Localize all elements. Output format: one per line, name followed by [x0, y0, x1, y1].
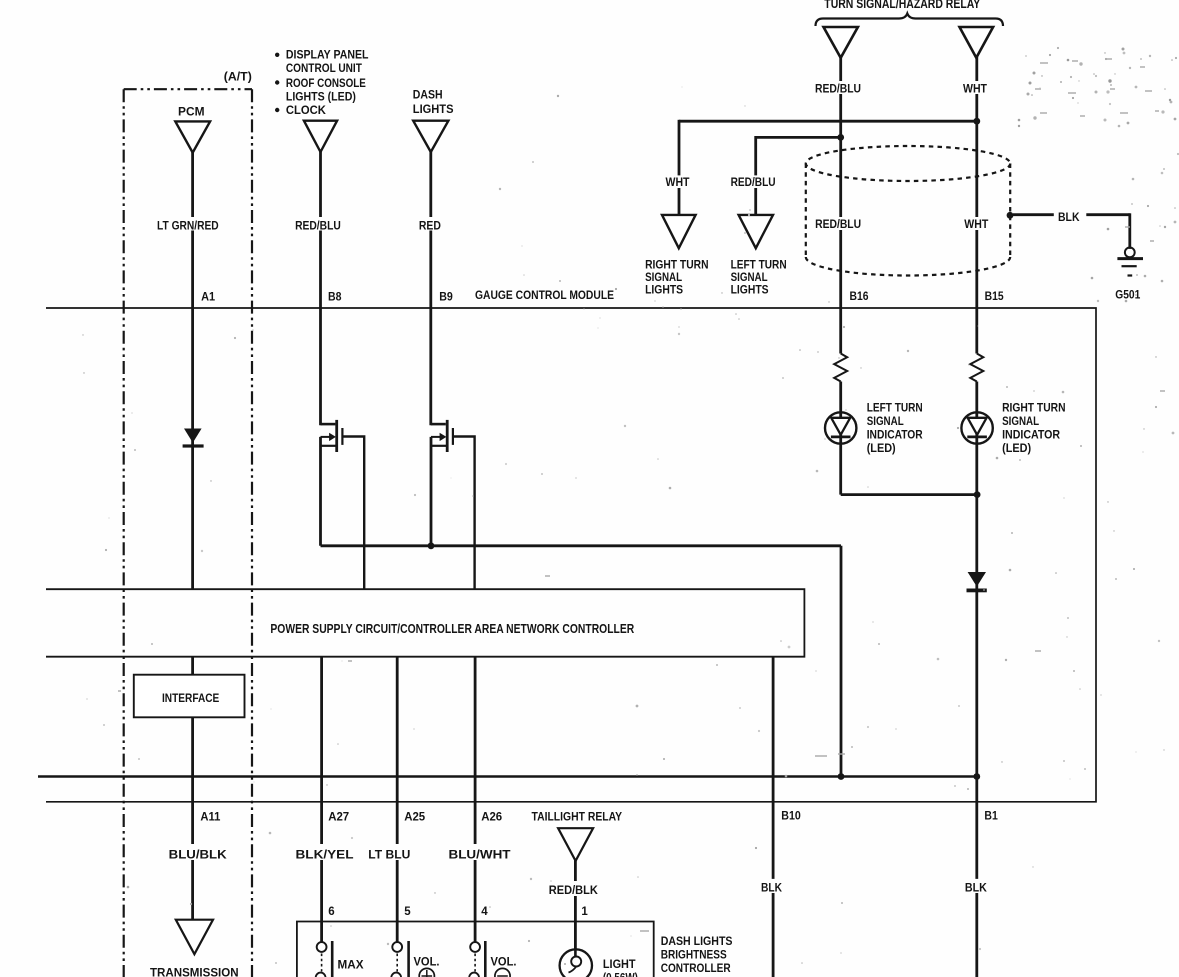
- svg-text:BLU/WHT: BLU/WHT: [449, 848, 512, 862]
- svg-text:LIGHT: LIGHT: [603, 957, 636, 971]
- svg-text:LT BLU: LT BLU: [368, 848, 410, 862]
- svg-text:INDICATOR: INDICATOR: [867, 428, 923, 442]
- svg-text:SIGNAL: SIGNAL: [867, 414, 904, 428]
- svg-text:DISPLAY PANEL: DISPLAY PANEL: [286, 48, 369, 62]
- svg-text:ROOF CONSOLE: ROOF CONSOLE: [286, 76, 366, 90]
- svg-text:WHT: WHT: [963, 82, 988, 96]
- svg-text:BLU/BLK: BLU/BLK: [169, 848, 227, 862]
- svg-text:A25: A25: [404, 812, 426, 824]
- svg-text:LIGHTS (LED): LIGHTS (LED): [286, 89, 356, 103]
- svg-text:CLOCK: CLOCK: [286, 103, 326, 117]
- svg-text:CONTROL UNIT: CONTROL UNIT: [286, 61, 363, 75]
- svg-text:MAX: MAX: [338, 958, 364, 972]
- svg-text:WHT: WHT: [666, 175, 691, 189]
- svg-text:A11: A11: [200, 812, 221, 824]
- svg-text:TURN SIGNAL/HAZARD RELAY: TURN SIGNAL/HAZARD RELAY: [824, 0, 981, 11]
- svg-text:LIGHTS: LIGHTS: [731, 283, 769, 297]
- svg-text:B16: B16: [850, 291, 869, 303]
- svg-text:WHT: WHT: [964, 217, 989, 231]
- svg-text:BLK/YEL: BLK/YEL: [296, 848, 354, 862]
- svg-text:B1: B1: [984, 811, 998, 823]
- svg-text:LIGHTS: LIGHTS: [645, 283, 683, 297]
- svg-text:LEFT TURN: LEFT TURN: [867, 401, 923, 415]
- svg-text:RED: RED: [419, 218, 441, 232]
- svg-text:1: 1: [581, 906, 588, 918]
- svg-text:A26: A26: [481, 812, 502, 824]
- svg-text:INDICATOR: INDICATOR: [1002, 428, 1060, 442]
- svg-text:PCM: PCM: [178, 104, 205, 118]
- svg-text:BLK: BLK: [1058, 210, 1080, 224]
- svg-text:RED/BLU: RED/BLU: [815, 82, 861, 96]
- svg-text:B9: B9: [439, 292, 453, 304]
- svg-text:LIGHTS: LIGHTS: [413, 102, 454, 116]
- svg-text:BLK: BLK: [965, 881, 987, 895]
- svg-text:RED/BLU: RED/BLU: [815, 217, 861, 231]
- svg-text:B10: B10: [781, 811, 801, 823]
- svg-text:5: 5: [404, 906, 411, 918]
- svg-text:G501: G501: [1115, 287, 1140, 301]
- svg-text:TAILLIGHT RELAY: TAILLIGHT RELAY: [532, 810, 623, 824]
- svg-text:RED/BLU: RED/BLU: [731, 175, 776, 189]
- svg-text:6: 6: [328, 906, 334, 918]
- svg-text:BLK: BLK: [761, 881, 782, 895]
- svg-text:GAUGE CONTROL MODULE: GAUGE CONTROL MODULE: [475, 288, 614, 302]
- svg-text:VOL.: VOL.: [414, 955, 440, 969]
- svg-text:RED/BLK: RED/BLK: [549, 883, 598, 897]
- svg-text:DASH LIGHTS: DASH LIGHTS: [661, 934, 733, 948]
- svg-text:TRANSMISSION: TRANSMISSION: [150, 966, 239, 977]
- svg-text:SIGNAL: SIGNAL: [1002, 414, 1039, 428]
- svg-text:B8: B8: [328, 292, 342, 304]
- svg-text:CONTROLLER: CONTROLLER: [661, 961, 731, 975]
- svg-text:BRIGHTNESS: BRIGHTNESS: [661, 948, 727, 962]
- svg-text:A1: A1: [201, 292, 216, 304]
- svg-text:(0.56W): (0.56W): [603, 971, 638, 977]
- svg-text:RIGHT TURN: RIGHT TURN: [1002, 401, 1065, 415]
- svg-text:(A/T): (A/T): [224, 70, 252, 84]
- svg-text:POWER SUPPLY CIRCUIT/CONTROLLE: POWER SUPPLY CIRCUIT/CONTROLLER AREA NET…: [270, 622, 634, 636]
- svg-text:INTERFACE: INTERFACE: [162, 691, 219, 705]
- svg-text:B15: B15: [985, 291, 1005, 303]
- svg-text:(LED): (LED): [1002, 441, 1031, 455]
- svg-text:DASH: DASH: [413, 87, 443, 101]
- svg-text:RED/BLU: RED/BLU: [295, 218, 341, 232]
- svg-text:LT GRN/RED: LT GRN/RED: [157, 218, 219, 232]
- svg-text:VOL.: VOL.: [491, 955, 517, 969]
- svg-text:A27: A27: [328, 812, 349, 824]
- svg-text:(LED): (LED): [867, 441, 896, 455]
- svg-text:4: 4: [481, 906, 488, 918]
